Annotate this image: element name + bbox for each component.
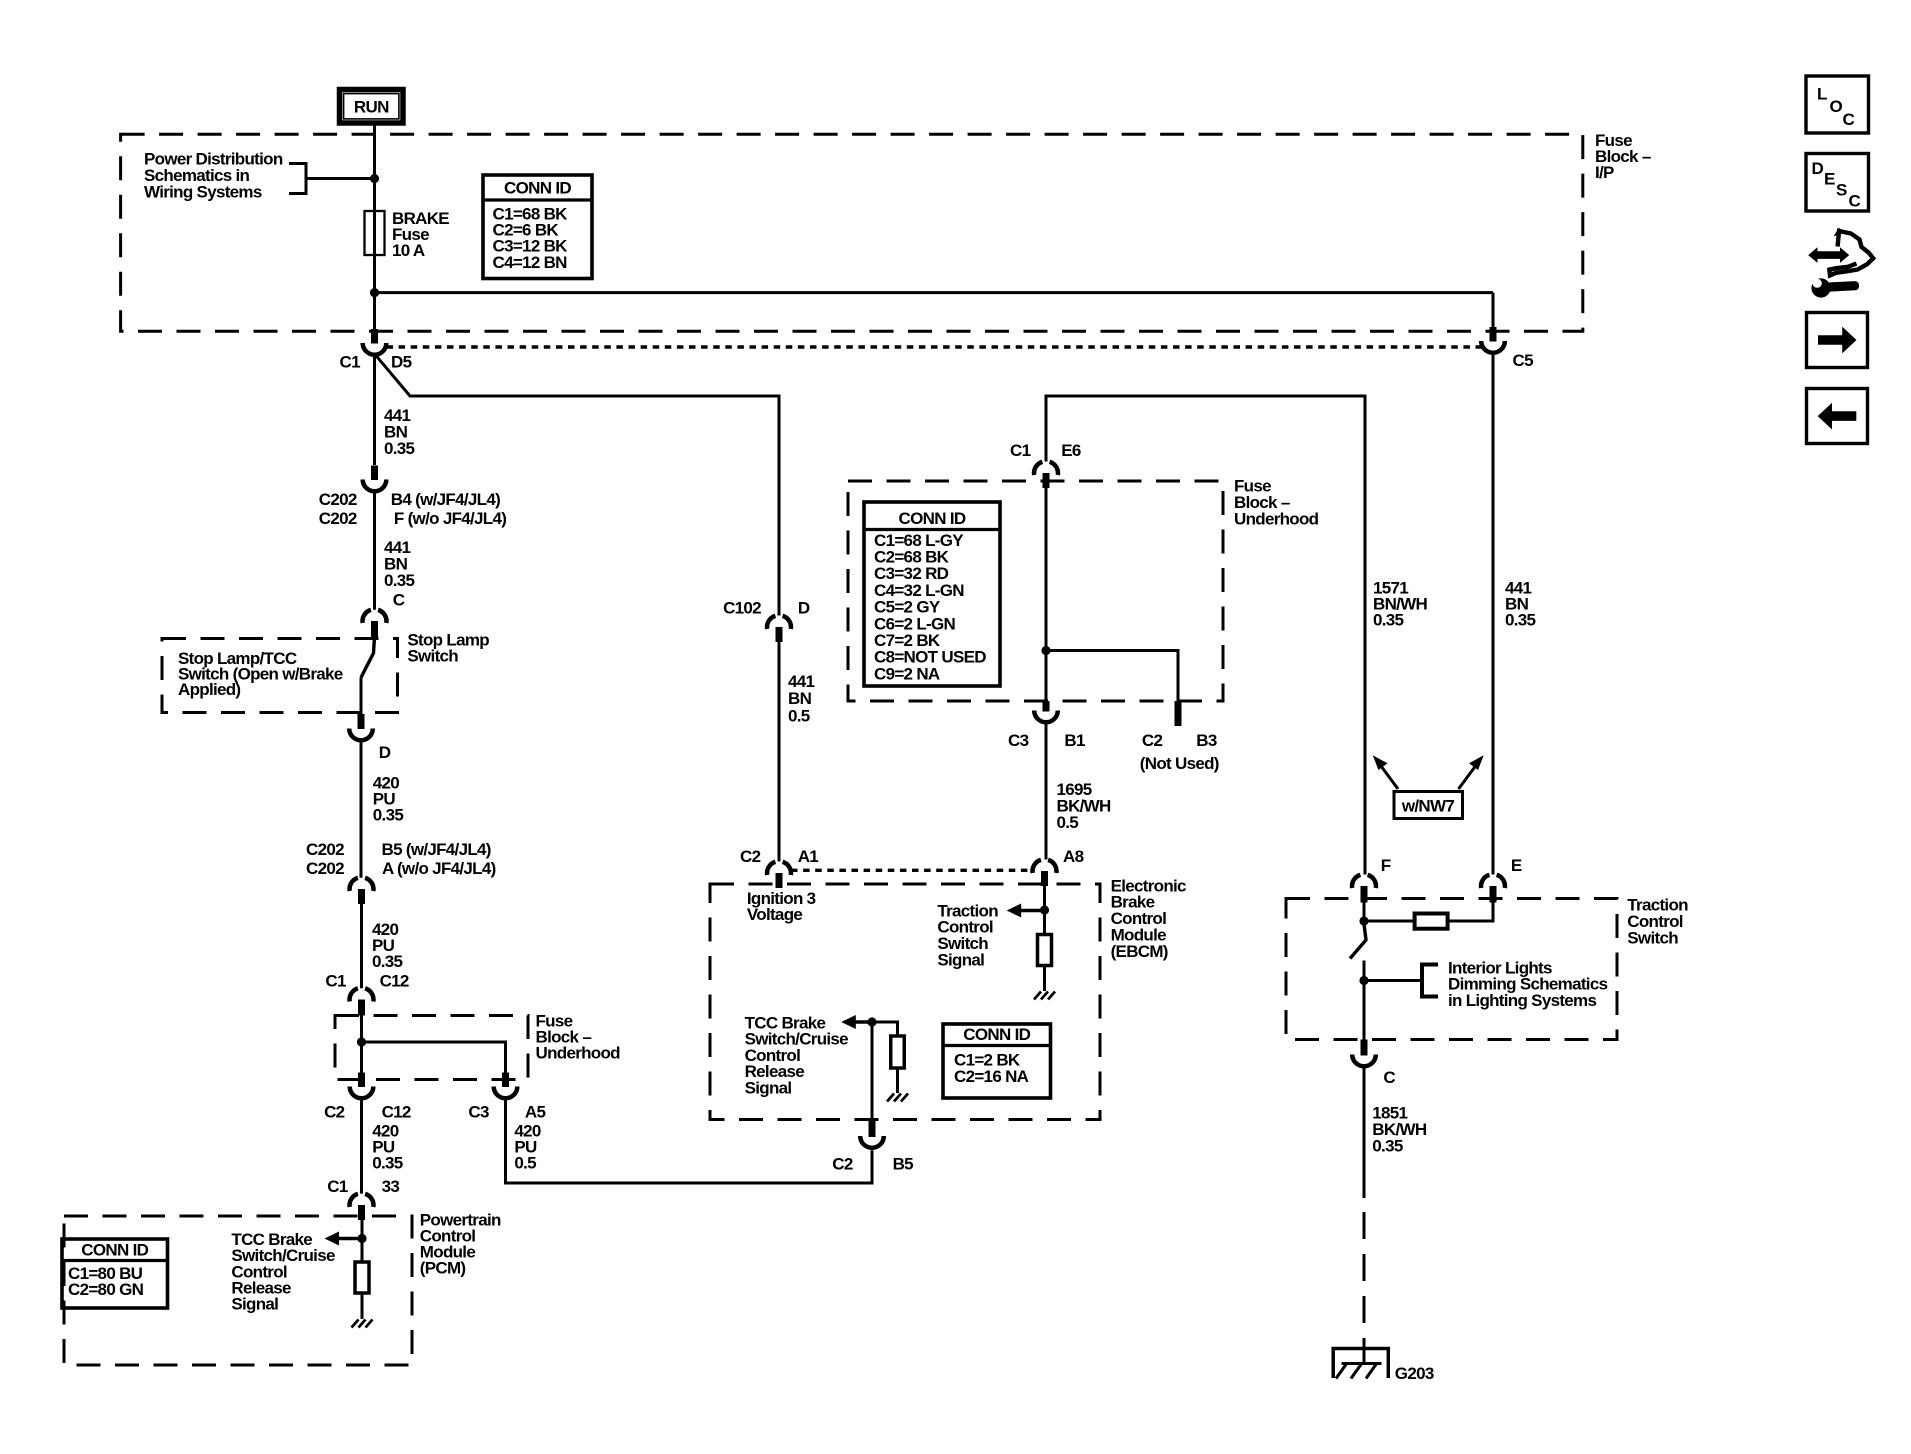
svg-text:C9=2 NA: C9=2 NA <box>874 664 940 683</box>
svg-text:C: C <box>1843 110 1855 129</box>
svg-text:C5: C5 <box>1513 351 1534 370</box>
svg-text:C202: C202 <box>306 840 344 859</box>
svg-text:BN: BN <box>788 689 812 708</box>
svg-text:C2=80 GN: C2=80 GN <box>68 1280 144 1299</box>
svg-text:C1: C1 <box>340 353 361 372</box>
svg-text:A1: A1 <box>798 847 819 866</box>
svg-text:Voltage: Voltage <box>747 905 802 924</box>
svg-text:C2: C2 <box>1142 731 1163 750</box>
svg-text:Wiring Systems: Wiring Systems <box>144 183 262 202</box>
svg-text:Signal: Signal <box>937 950 984 969</box>
svg-text:CONN ID: CONN ID <box>899 509 966 528</box>
svg-text:G203: G203 <box>1395 1364 1434 1383</box>
svg-text:C12: C12 <box>382 1103 411 1122</box>
svg-text:w/NW7: w/NW7 <box>1401 797 1454 816</box>
svg-text:CONN ID: CONN ID <box>504 179 571 198</box>
svg-text:0.35: 0.35 <box>372 1153 403 1172</box>
svg-text:Signal: Signal <box>745 1078 792 1097</box>
svg-text:C4=12 BN: C4=12 BN <box>493 253 568 272</box>
svg-text:441: 441 <box>788 672 815 691</box>
svg-text:C3: C3 <box>1008 731 1029 750</box>
svg-text:0.35: 0.35 <box>372 952 403 971</box>
svg-text:Signal: Signal <box>231 1295 278 1314</box>
svg-text:C12: C12 <box>380 972 409 991</box>
svg-text:C2: C2 <box>832 1155 853 1174</box>
svg-text:D: D <box>798 599 810 618</box>
svg-text:C: C <box>1383 1068 1395 1087</box>
svg-text:C1: C1 <box>325 972 346 991</box>
svg-text:RUN: RUN <box>354 98 389 117</box>
svg-text:(EBCM): (EBCM) <box>1111 942 1168 961</box>
svg-text:E: E <box>1824 170 1835 189</box>
svg-text:F (w/o JF4/JL4): F (w/o JF4/JL4) <box>394 509 506 528</box>
svg-text:C202: C202 <box>306 859 344 878</box>
svg-text:0.35: 0.35 <box>373 806 404 825</box>
svg-text:C2: C2 <box>740 847 761 866</box>
svg-text:E6: E6 <box>1061 441 1081 460</box>
svg-text:Underhood: Underhood <box>1234 510 1319 529</box>
svg-text:D: D <box>1812 159 1824 178</box>
svg-text:B1: B1 <box>1064 731 1085 750</box>
svg-text:0.35: 0.35 <box>1372 1136 1403 1155</box>
svg-text:A5: A5 <box>525 1103 546 1122</box>
svg-text:C: C <box>393 591 405 610</box>
svg-text:0.35: 0.35 <box>384 571 415 590</box>
svg-text:A8: A8 <box>1063 847 1084 866</box>
svg-text:S: S <box>1836 181 1847 200</box>
svg-text:E: E <box>1511 856 1522 875</box>
svg-text:C: C <box>1849 192 1861 211</box>
svg-text:C1: C1 <box>327 1177 348 1196</box>
svg-text:B4 (w/JF4/JL4): B4 (w/JF4/JL4) <box>391 490 500 509</box>
svg-text:33: 33 <box>382 1177 400 1196</box>
svg-text:C202: C202 <box>319 509 357 528</box>
svg-text:Switch: Switch <box>407 647 458 666</box>
svg-text:B5 (w/JF4/JL4): B5 (w/JF4/JL4) <box>382 840 491 859</box>
svg-text:C1: C1 <box>1010 441 1031 460</box>
svg-text:C102: C102 <box>723 599 761 618</box>
svg-text:C202: C202 <box>319 490 357 509</box>
svg-text:0.5: 0.5 <box>1057 813 1079 832</box>
svg-text:0.35: 0.35 <box>1373 611 1404 630</box>
svg-text:F: F <box>1381 856 1391 875</box>
svg-text:CONN ID: CONN ID <box>963 1025 1030 1044</box>
svg-text:(PCM): (PCM) <box>420 1258 466 1277</box>
svg-text:10 A: 10 A <box>392 241 425 260</box>
svg-text:0.5: 0.5 <box>514 1153 536 1172</box>
svg-text:C2=16 NA: C2=16 NA <box>954 1067 1029 1086</box>
svg-text:L: L <box>1817 85 1827 104</box>
svg-text:0.35: 0.35 <box>1505 611 1536 630</box>
svg-text:D5: D5 <box>391 353 412 372</box>
svg-text:C2: C2 <box>324 1103 345 1122</box>
svg-text:D: D <box>379 743 391 762</box>
svg-text:Applied): Applied) <box>178 680 240 699</box>
svg-text:B3: B3 <box>1196 731 1217 750</box>
svg-text:O: O <box>1830 97 1843 116</box>
svg-text:Switch: Switch <box>1627 928 1678 947</box>
svg-text:I/P: I/P <box>1595 163 1614 182</box>
svg-text:CONN ID: CONN ID <box>81 1241 148 1260</box>
svg-text:0.5: 0.5 <box>788 706 810 725</box>
svg-text:Underhood: Underhood <box>536 1044 621 1063</box>
svg-text:in Lighting Systems: in Lighting Systems <box>1448 991 1596 1010</box>
svg-text:C3: C3 <box>468 1103 489 1122</box>
svg-text:A (w/o JF4/JL4): A (w/o JF4/JL4) <box>382 859 496 878</box>
svg-text:B5: B5 <box>893 1155 914 1174</box>
svg-text:0.35: 0.35 <box>384 439 415 458</box>
svg-text:(Not Used): (Not Used) <box>1140 754 1219 773</box>
